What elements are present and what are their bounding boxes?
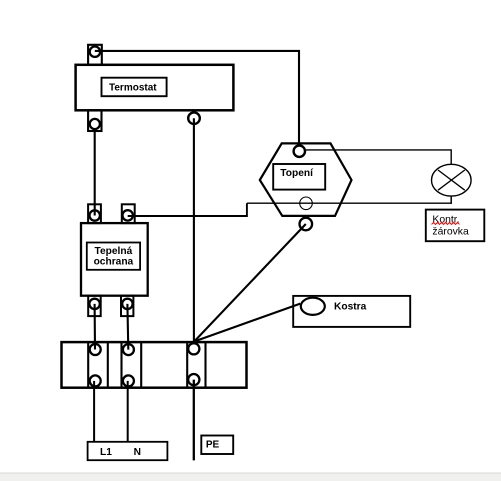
terminal strip divider 5 xyxy=(186,342,188,388)
wire heating element top to lamp top xyxy=(306,150,451,165)
svg-text:N: N xyxy=(134,447,141,458)
heating element hexagon (Topení) xyxy=(260,143,352,216)
svg-text:Tepelná: Tepelná xyxy=(95,246,133,257)
heating element bottom terminal circle xyxy=(300,218,313,231)
chassis label box (Kostra) xyxy=(293,296,410,327)
heating element top terminal circle xyxy=(294,146,305,157)
strip terminal 2 top circle xyxy=(123,344,134,355)
terminal strip divider 2 xyxy=(107,342,109,388)
terminal X4 (thermal protection top-right) xyxy=(122,204,135,223)
terminal strip divider 6 xyxy=(204,342,206,388)
wire thermal protection top-right toward heating element xyxy=(128,203,247,216)
terminal circle of X1 xyxy=(90,47,100,57)
terminal X2 (bottom of thermostat) xyxy=(88,110,101,131)
thermostat box (Termostat) xyxy=(76,65,234,111)
terminal circle of X2 xyxy=(90,119,100,129)
spellcheck squiggle under Kontr. xyxy=(432,223,460,225)
wire X1 to heating element top xyxy=(95,51,299,144)
terminal circle of X4 xyxy=(123,210,133,220)
wire thermal protection bottom-right to strip xyxy=(126,304,129,350)
wire strip to L1 xyxy=(93,381,95,442)
terminal circle of X3 xyxy=(90,210,100,220)
terminal X3 (thermal protection top-left) xyxy=(88,204,101,223)
strip terminal 2 bottom circle xyxy=(123,375,134,386)
thermostat label xyxy=(102,78,167,97)
thermal protection label xyxy=(87,243,140,270)
indicator lamp symbol xyxy=(432,164,472,196)
terminal strip body xyxy=(62,342,247,388)
heating element middle terminal circle xyxy=(300,197,313,210)
PE label box xyxy=(201,436,233,455)
wire to heating element middle terminal and lamp bottom xyxy=(247,202,451,204)
terminal strip divider 1 xyxy=(87,342,89,388)
terminal circle of X6 xyxy=(122,299,132,309)
indicator lamp label text xyxy=(432,215,470,238)
bottom window band xyxy=(0,473,501,481)
svg-text:Topení: Topení xyxy=(280,168,314,179)
wire lamp bottom drop xyxy=(450,196,452,204)
node circle under thermostat xyxy=(188,112,200,124)
thermal protection box (Tepelná ochrana) xyxy=(81,223,148,296)
wire X2 to thermal protection top-left xyxy=(94,129,96,215)
chassis ellipse (Kostra symbol) xyxy=(301,298,325,315)
terminal X6 (thermal protection bottom-right) xyxy=(121,296,133,316)
terminal X1 (top of thermostat) xyxy=(88,45,102,65)
wire heating element bottom terminal to PE junction xyxy=(194,224,306,342)
strip terminal 1 top circle xyxy=(90,344,101,355)
terminal strip divider 4 xyxy=(140,342,142,388)
supply box L1 N xyxy=(88,442,168,460)
svg-text:ochrana: ochrana xyxy=(94,257,134,268)
svg-text:žárovka: žárovka xyxy=(432,227,469,238)
strip terminal 3 top circle (PE junction) xyxy=(188,343,199,354)
svg-text:PE: PE xyxy=(206,440,220,451)
heating element label xyxy=(273,164,325,190)
terminal circle of X5 xyxy=(89,299,99,309)
strip terminal 3 bottom circle xyxy=(188,374,199,385)
wire PE vertical from node to strip xyxy=(193,118,195,342)
wire chassis to PE junction xyxy=(194,304,300,342)
svg-text:Kostra: Kostra xyxy=(334,302,367,313)
indicator lamp label box (Kontr. žárovka) xyxy=(426,210,485,242)
strip terminal 1 bottom circle xyxy=(90,375,101,386)
wire strip to N xyxy=(127,381,129,442)
wire thermal protection bottom-left to strip xyxy=(94,304,97,350)
svg-text:L1: L1 xyxy=(100,447,112,458)
wire strip to PE end xyxy=(193,380,195,461)
svg-text:Termostat: Termostat xyxy=(109,83,157,94)
terminal X5 (thermal protection bottom-left) xyxy=(88,296,101,316)
terminal strip divider 3 xyxy=(120,342,122,388)
